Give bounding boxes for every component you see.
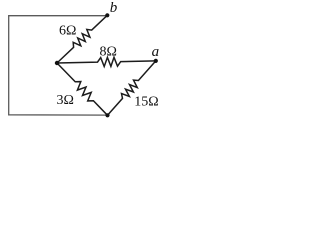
svg-text:3Ω: 3Ω [57,93,74,108]
svg-text:b: b [110,0,118,16]
svg-text:6Ω: 6Ω [59,24,76,39]
svg-text:8Ω: 8Ω [100,45,117,60]
svg-text:a: a [152,44,160,60]
svg-text:15Ω: 15Ω [134,94,158,109]
